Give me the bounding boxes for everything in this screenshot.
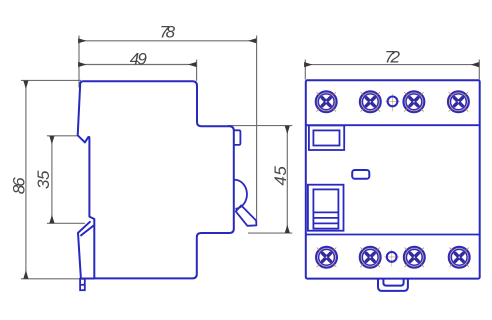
side latch tab xyxy=(234,130,241,145)
front view bottom separator xyxy=(306,234,480,236)
top terminal screw 4 xyxy=(448,91,469,112)
extension line right (78) down to lever tip xyxy=(256,36,258,221)
extension line top (35) xyxy=(47,135,78,137)
din clip foot bar xyxy=(80,284,85,286)
top test hole xyxy=(385,94,399,111)
lever handle xyxy=(236,205,257,225)
extension line bottom (45) xyxy=(248,232,292,234)
bottom rail tab inner xyxy=(383,279,403,286)
dimension line 78 xyxy=(78,40,256,42)
bottom terminal screw 2 xyxy=(360,247,381,268)
switch toggle line 2 xyxy=(313,217,338,219)
switch outer frame xyxy=(308,185,344,231)
svg-text:78: 78 xyxy=(160,23,176,42)
extension line left (72) xyxy=(304,60,306,80)
dimension line 35 xyxy=(51,136,53,223)
bottom test hole xyxy=(385,249,399,266)
top terminal screw 2 xyxy=(360,91,381,112)
front view top separator xyxy=(306,124,480,126)
dimension line 49 xyxy=(78,64,196,66)
bottom terminal screw 1 xyxy=(316,247,337,268)
svg-text:45: 45 xyxy=(271,166,290,186)
svg-text:35: 35 xyxy=(34,170,53,189)
switch inner frame xyxy=(313,189,338,228)
extension line right (49) xyxy=(196,60,198,81)
indicator window outer xyxy=(309,125,344,150)
indicator window inner xyxy=(313,130,339,145)
extension line right (72) xyxy=(478,60,480,80)
side view body outline xyxy=(78,81,234,278)
extension line top (86) xyxy=(21,79,81,81)
svg-text:72: 72 xyxy=(384,48,400,67)
dimension line 45 xyxy=(286,126,288,233)
dimension line 86 xyxy=(25,81,27,279)
bottom rail tab outer xyxy=(378,279,408,291)
bottom terminal screw 4 xyxy=(449,247,470,268)
dimension line 72 xyxy=(304,64,478,66)
lever pivot arc xyxy=(234,180,247,209)
extension line bottom (35) xyxy=(47,222,85,224)
din clip outer hook xyxy=(78,221,94,278)
svg-text:86: 86 xyxy=(9,177,28,195)
din clip foot xyxy=(80,279,85,290)
front view outer body xyxy=(306,80,480,278)
switch toggle line 1 xyxy=(313,211,338,213)
top terminal screw 3 xyxy=(404,91,425,112)
svg-text:49: 49 xyxy=(130,49,148,68)
extension line top (45) xyxy=(228,125,292,127)
test button slot xyxy=(352,170,369,179)
extension line left (78/49) xyxy=(78,36,80,88)
bottom terminal screw 3 xyxy=(404,247,425,268)
din clip inner hook line xyxy=(80,225,93,236)
top terminal screw 1 xyxy=(316,91,337,112)
switch toggle line 3 xyxy=(313,222,338,224)
extension line bottom (86) xyxy=(21,278,81,280)
